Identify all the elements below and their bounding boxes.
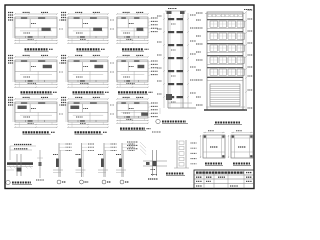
square plan H caption: [233, 164, 251, 166]
stair plan detail 9 (row 3 col 3): [116, 97, 158, 130]
bottom detail E label: [120, 180, 129, 184]
bottom detail A caption: [6, 180, 32, 184]
square plan G caption: [205, 164, 223, 166]
notes left of title block: [151, 170, 158, 175]
title block grid: [194, 170, 254, 189]
elevation roller shutter: [210, 84, 240, 106]
elevation caption: [214, 123, 242, 125]
cross wall junction detail: [143, 150, 167, 179]
elevation parapet coping: [205, 14, 245, 17]
elevation ground line: [204, 107, 247, 110]
stair section base: [160, 94, 196, 114]
bottom detail E structure: [116, 143, 135, 177]
bottom detail D label: [102, 180, 111, 184]
bottom detail C label: [80, 180, 89, 184]
stair plan detail 2 (row 1 col 2): [61, 12, 114, 51]
stair section floor slabs: [168, 18, 183, 102]
bottom detail B label: [57, 180, 66, 184]
stair plan detail 5 (row 2 col 2): [61, 55, 114, 94]
stair plan detail 8 (row 3 col 2): [61, 97, 114, 134]
title block text: [196, 173, 252, 186]
small square plan H: [228, 131, 253, 158]
sheet corner note: [244, 9, 252, 11]
elevation lintel band: [207, 78, 243, 81]
bottom detail D structure: [98, 143, 117, 177]
stair section dimension lines: [157, 9, 196, 109]
stair plan detail 3 (row 1 col 3): [116, 12, 158, 51]
stair section caption: [152, 119, 188, 132]
jamb detail F caption: [166, 174, 185, 176]
jamb section detail F: [174, 140, 197, 168]
elevation outline: [207, 12, 243, 110]
elevation floor level labels: [196, 13, 203, 105]
stair section strip walls: [165, 11, 186, 108]
bottom detail B structure: [53, 143, 72, 177]
cross detail leader notes: [127, 142, 146, 155]
small square plan G: [200, 131, 225, 158]
elevation window bands: [207, 20, 245, 77]
stair plan detail 4 (row 2 col 1): [8, 55, 63, 94]
elevation right dimensions: [245, 10, 252, 111]
stair plan detail 1 (row 1 col 1): [8, 12, 63, 51]
stair plan detail 6 (row 2 col 3): [116, 55, 158, 94]
bottom detail C structure: [76, 143, 95, 177]
bottom detail A structure: [6, 145, 45, 181]
stair plan detail 7 (row 3 col 1): [8, 97, 63, 134]
sheet border frame: [5, 5, 254, 189]
